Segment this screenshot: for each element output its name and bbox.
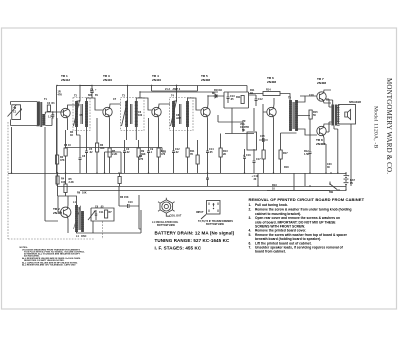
transistor TR4	[152, 74, 170, 140]
resistor R11	[241, 96, 244, 104]
resistor R9	[137, 140, 146, 173]
svg-text:BATTERY DRAIN: 12 MA (No sign: BATTERY DRAIN: 12 MA (No signal)	[155, 231, 235, 236]
transformer T2 IF	[73, 95, 90, 131]
wire coil secondary to base network	[45, 112, 61, 126]
capacitor C3 label	[58, 91, 63, 97]
wire lower rail	[80, 190, 330, 192]
svg-text:2N408: 2N408	[201, 78, 210, 82]
IF transformer bottom view	[196, 201, 233, 227]
svg-text:INPUT: INPUT	[196, 211, 204, 214]
svg-text:.02: .02	[126, 151, 130, 154]
svg-text:2N412: 2N412	[61, 78, 70, 82]
wire antenna secondary down to oscillator	[45, 127, 58, 221]
svg-text:board from cabinet.: board from cabinet.	[255, 250, 286, 254]
svg-text:270: 270	[139, 158, 144, 161]
svg-text:7.: 7.	[249, 246, 252, 250]
transistor TR5	[201, 74, 211, 140]
resistor R4 below bus	[56, 173, 66, 196]
svg-text:21 A: 21 A	[165, 88, 170, 91]
wire T3 sec to TR4 base	[136, 98, 152, 110]
wire AVC rail	[57, 186, 346, 188]
transistor TR3	[103, 74, 121, 140]
svg-text:5K: 5K	[242, 129, 245, 132]
detector section box	[208, 86, 249, 109]
transistor TR1	[61, 74, 80, 130]
REMOVAL instructions block	[249, 197, 365, 254]
svg-text:2N408: 2N408	[316, 142, 325, 146]
svg-text:JAP: JAP	[176, 117, 181, 120]
capacitor C14 value	[209, 151, 213, 154]
svg-text:BOTTOM VIEW: BOTTOM VIEW	[157, 224, 176, 227]
svg-text:C18: C18	[309, 94, 314, 97]
svg-text:C12: C12	[258, 98, 263, 101]
label R11b right of detector	[250, 89, 255, 95]
svg-text:1K: 1K	[70, 134, 73, 137]
svg-text:R17: R17	[283, 152, 288, 155]
svg-text:C17: C17	[256, 158, 261, 161]
wire T2 sec top to TR3 base	[87, 98, 104, 110]
capacitor C12b right of detector	[249, 95, 264, 106]
capacitor C12 value	[175, 151, 179, 154]
wire C1A return to B- bus	[11, 127, 13, 173]
capacitor label inside T2	[80, 114, 84, 117]
wire top bus	[57, 85, 248, 87]
wire bottom right bus	[267, 190, 346, 192]
capacitor C4 elco	[88, 86, 97, 99]
diode M1	[212, 92, 218, 98]
resistor R6	[119, 186, 129, 206]
capacitor C10	[128, 195, 142, 233]
wire L1 connections	[58, 196, 93, 233]
wire stub x305	[304, 173, 306, 186]
wire output transformer bottom	[334, 126, 338, 174]
transformer T3 IF	[121, 95, 145, 131]
label C20	[327, 163, 332, 169]
wire TR8 emitter to rail	[324, 144, 326, 173]
svg-text:2.: 2.	[249, 208, 252, 212]
resistor R17	[279, 133, 297, 173]
resistor R3	[96, 118, 105, 173]
resistor R13a label	[223, 150, 228, 156]
wire antenna top	[11, 102, 38, 105]
svg-text:1K: 1K	[250, 92, 253, 95]
capacitor C16 elco	[243, 149, 251, 173]
svg-text:680: 680	[88, 94, 93, 97]
svg-text:Model 1120A, -B: Model 1120A, -B	[373, 106, 379, 148]
svg-text:470: 470	[161, 153, 166, 156]
speaker SP	[338, 101, 362, 186]
capacitor C7 label	[113, 98, 117, 101]
wire T3 primary top to bus	[127, 86, 128, 102]
svg-text:7K: 7K	[190, 153, 193, 156]
capacitor C18	[300, 94, 314, 173]
label C19	[252, 174, 259, 187]
svg-text:2K: 2K	[223, 153, 226, 156]
wire antenna bottom	[11, 120, 40, 126]
svg-text:3.: 3.	[249, 216, 252, 220]
svg-text:2.2K: 2.2K	[69, 181, 74, 184]
resistor R10a	[157, 140, 160, 173]
transistor TR6	[263, 76, 276, 140]
capacitor C6b label inside T3	[138, 111, 143, 117]
resistor R5b on TR2 feed	[64, 174, 87, 197]
resistor R1	[47, 102, 55, 112]
svg-text:1K: 1K	[219, 89, 222, 92]
svg-text:10K: 10K	[61, 181, 66, 184]
mech link oscillator cap	[102, 222, 104, 240]
svg-text:R18: R18	[284, 166, 289, 169]
svg-text:2.2K: 2.2K	[112, 153, 117, 156]
svg-text:1.5K: 1.5K	[304, 153, 309, 156]
svg-text:M1: M1	[212, 92, 216, 95]
resistor R12a	[186, 140, 189, 173]
svg-text:SW: SW	[329, 191, 334, 194]
svg-text:160: 160	[138, 114, 143, 117]
wire stub x294	[293, 173, 295, 190]
label R18	[284, 166, 289, 169]
switch SW	[329, 182, 340, 195]
wire AGC line	[140, 92, 218, 98]
resistor R2	[56, 155, 65, 164]
transformer T5 driver	[288, 97, 298, 132]
capacitor label inside T4	[176, 114, 181, 120]
svg-text:.02: .02	[175, 151, 179, 154]
resistor R15	[309, 110, 318, 119]
svg-text:COIL OUT: COIL OUT	[170, 215, 182, 218]
capacitor C1A tuning gang	[8, 105, 22, 120]
capacitor C13	[227, 92, 230, 103]
transistor TR7	[317, 77, 331, 103]
svg-text:Pull out tuning knob.: Pull out tuning knob.	[255, 203, 288, 207]
resistor R12a label	[190, 150, 195, 156]
svg-text:SPEAKER: SPEAKER	[349, 101, 361, 104]
svg-text:2N410: 2N410	[103, 78, 112, 82]
capacitor C6 value	[126, 151, 130, 154]
svg-text:C11: C11	[99, 211, 104, 214]
battery B1	[344, 173, 356, 190]
label L1 osc coil	[76, 235, 87, 238]
svg-text:MONTGOMERY WARD & CO.: MONTGOMERY WARD & CO.	[385, 78, 393, 174]
wire TR6 emitter down	[273, 140, 275, 173]
capacitor C2	[48, 112, 54, 119]
junction dots mid bus	[56, 172, 57, 173]
svg-text:R11: R11	[236, 96, 241, 99]
capacitor C17	[253, 149, 262, 173]
wire mid bus B-	[8, 173, 346, 175]
svg-text:TUNING RANGE: 527 KC-1645 KC: TUNING RANGE: 527 KC-1645 KC	[155, 238, 230, 243]
svg-text:.05: .05	[100, 206, 104, 209]
wire T3 bottoms	[127, 127, 137, 140]
transformer T1 antenna coil	[37, 98, 48, 127]
wire AVC return line	[66, 148, 167, 153]
svg-text:6V: 6V	[95, 94, 98, 97]
capacitor C4 value	[95, 94, 98, 97]
label R270	[139, 155, 144, 161]
svg-text:C16: C16	[246, 154, 251, 157]
wire detector to volume	[231, 108, 233, 134]
mech gang dashed link	[8, 122, 95, 239]
wire AVC hat	[152, 86, 198, 92]
capacitor C5 value	[89, 151, 93, 154]
wire T4 bottoms	[174, 127, 188, 140]
resistor R10a label	[161, 150, 166, 156]
resistor R19 stub	[196, 140, 199, 173]
capacitor C5	[85, 140, 93, 173]
capacitor C20 stub	[206, 173, 209, 186]
L1 oscillator coil bottom view	[152, 198, 182, 227]
svg-text:1.: 1.	[249, 203, 252, 207]
resistor R5	[108, 140, 117, 173]
label C6 osc	[95, 206, 104, 209]
svg-text:REMOVAL OF PRINTED CIRCUIT BOA: REMOVAL OF PRINTED CIRCUIT BOARD FROM CA…	[249, 197, 365, 202]
capacitor C14	[206, 140, 214, 173]
svg-text:2N408: 2N408	[317, 81, 326, 85]
capacitor C8	[79, 135, 86, 173]
capacitor C6	[123, 140, 130, 173]
svg-text:47K: 47K	[60, 159, 65, 162]
svg-text:1.5: 1.5	[48, 116, 52, 119]
node dot	[52, 111, 53, 112]
svg-text:2N410: 2N410	[152, 78, 161, 82]
transistor TR2	[53, 196, 71, 233]
resistor R8b between rails	[118, 173, 121, 186]
resistor R13 label on rail	[272, 184, 277, 191]
wire bias loop	[105, 152, 122, 173]
junction dots on top bus	[56, 85, 57, 86]
svg-text:10K: 10K	[82, 192, 87, 195]
svg-text:15K: 15K	[124, 196, 129, 199]
resistor R4 label	[70, 131, 74, 137]
coupling capacitor C15	[259, 135, 268, 142]
svg-text:OSC: OSC	[81, 235, 87, 238]
svg-text:.05: .05	[209, 151, 213, 154]
svg-text:ALL RESISTORS ARE 10% TOLERANC: ALL RESISTORS ARE 10% TOLERANCE. CAPS GM…	[22, 263, 76, 266]
resistor R8	[64, 130, 71, 173]
transformer T4 IF	[170, 95, 194, 131]
svg-text:AMP 2: AMP 2	[173, 88, 181, 91]
NOTES block	[20, 247, 86, 266]
svg-text:47K: 47K	[58, 94, 63, 97]
resistor R12	[304, 150, 309, 156]
svg-text:C10: C10	[128, 201, 133, 204]
capacitor C12	[172, 140, 180, 173]
svg-text:2N408: 2N408	[267, 80, 276, 84]
wire T2 primary bottom	[77, 127, 81, 135]
svg-text:.02: .02	[89, 151, 93, 154]
resistor R13a	[219, 134, 222, 174]
svg-text:.05: .05	[230, 98, 234, 101]
svg-text:R14: R14	[266, 89, 271, 92]
wire T4 sec to TR5 base	[188, 98, 202, 110]
coil L1 oscillator	[73, 201, 84, 232]
wire TR5 emitter to volume top	[218, 115, 243, 132]
svg-text:I. F. STAGES: 455 KC: I. F. STAGES: 455 KC	[155, 246, 202, 251]
resistor R16	[262, 140, 265, 173]
resistor R14	[249, 89, 291, 101]
transistor TR8	[316, 124, 331, 146]
capacitor C9	[147, 118, 154, 173]
oscillator network	[88, 208, 141, 233]
wire T4 primary top to bus	[174, 86, 177, 102]
wire T2 primary top to bus	[77, 86, 93, 102]
svg-text:5.: 5.	[249, 233, 252, 237]
svg-text:9V: 9V	[350, 182, 353, 185]
wires T5 to push-pull bases	[297, 96, 318, 135]
wire TR1 base down	[56, 118, 58, 186]
svg-text:BOTTOM VIEW: BOTTOM VIEW	[206, 223, 225, 226]
wire top bus left corner drop	[56, 86, 58, 174]
battery / tuning / IF data text	[155, 231, 235, 251]
wire T2 sec bottom down	[86, 127, 88, 140]
junction dots bus	[91, 85, 92, 86]
volume control VR	[225, 108, 257, 150]
capacitor C9 value	[150, 151, 153, 154]
transformer T6 output	[326, 99, 340, 132]
